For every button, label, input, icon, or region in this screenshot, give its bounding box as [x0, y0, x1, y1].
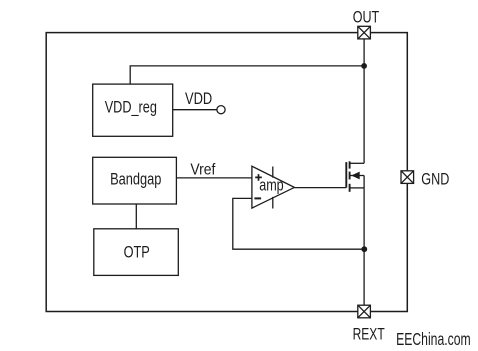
- wire source down to REXT pin: [363, 176, 365, 306]
- body arrow: [351, 172, 360, 180]
- pin GND (box with X on right edge): [401, 171, 414, 184]
- IC boundary rectangle: [46, 33, 407, 312]
- wire Bandgap to OTP: [135, 204, 137, 229]
- wire amp output to transistor gate: [294, 187, 346, 189]
- svg-text:REXT: REXT: [353, 326, 385, 344]
- block OTP: [94, 229, 179, 276]
- source stub: [350, 187, 365, 189]
- wire Vref: Bandgap to amp + input: [176, 177, 252, 179]
- svg-text:EEChina.com: EEChina.com: [396, 329, 471, 349]
- drain stub: [350, 162, 365, 164]
- block Bandgap: [93, 157, 177, 204]
- pin OUT (box with X on top edge): [358, 26, 371, 39]
- wire feedback: amp - input, down and right to source net: [233, 198, 364, 249]
- body stub: [350, 175, 365, 177]
- op-amp U1 "amp": [252, 166, 295, 208]
- op-amp plus sign: [255, 174, 262, 181]
- op-amp upper tick mark: [272, 167, 274, 178]
- svg-text:Bandgap: Bandgap: [110, 170, 161, 188]
- channel segment top: [349, 161, 351, 168]
- svg-text:OTP: OTP: [124, 243, 150, 261]
- svg-text:Vref: Vref: [190, 162, 215, 179]
- op-amp minus sign: [254, 197, 261, 199]
- wire VDD_reg top to OUT net: [130, 66, 364, 84]
- op-amp lower tick mark: [272, 197, 274, 209]
- transistor Q1 NMOS: [346, 161, 364, 192]
- channel segment bottom: [349, 184, 351, 192]
- svg-text:VDD_reg: VDD_reg: [105, 99, 157, 117]
- svg-text:amp: amp: [259, 176, 284, 194]
- junction dot: feedback joins source net: [361, 246, 367, 252]
- svg-text:GND: GND: [421, 171, 449, 189]
- junction dot: VDD_reg wire joins OUT net: [361, 63, 367, 69]
- wire VDD output: [173, 109, 217, 111]
- pin REXT (box with X on bottom edge): [358, 305, 371, 318]
- channel segment middle: [349, 172, 351, 180]
- svg-text:VDD: VDD: [185, 90, 212, 108]
- gate bar: [345, 162, 347, 188]
- op-amp triangle body: [252, 166, 295, 208]
- svg-text:OUT: OUT: [353, 8, 380, 26]
- block VDD_reg: [93, 84, 173, 136]
- terminal VDD open circle: [217, 106, 225, 114]
- wire drain up to OUT pin: [363, 39, 365, 163]
